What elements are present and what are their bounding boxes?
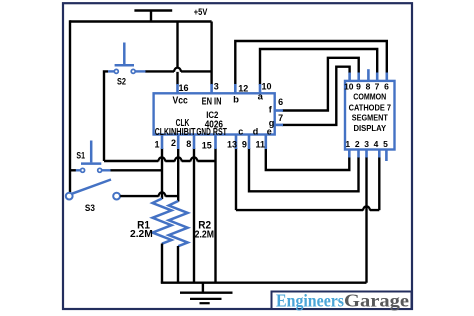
power +5V symbol xyxy=(134,11,172,22)
wire hop over pin1 vertical xyxy=(158,157,165,161)
wire: IC pin9 d to display pin2 xyxy=(249,148,359,191)
svg-text:e: e xyxy=(267,127,272,137)
svg-text:10: 10 xyxy=(262,82,272,92)
svg-text:10: 10 xyxy=(344,82,354,92)
svg-text:Engineers: Engineers xyxy=(276,290,344,310)
svg-text:9: 9 xyxy=(242,140,247,150)
wire hop over pin8 vertical xyxy=(191,157,198,161)
label S3 xyxy=(85,203,95,214)
svg-text:3: 3 xyxy=(214,82,219,92)
svg-text:6: 6 xyxy=(384,82,389,92)
wire hop over R1 line xyxy=(159,192,166,196)
label +5V xyxy=(194,7,208,18)
svg-text:CATHODE 7: CATHODE 7 xyxy=(349,103,392,113)
wire: S1 right terminal to pin1 CLK line xyxy=(111,169,163,171)
IC2 bottom pin stubs 1,2,8,15,13,9,11 xyxy=(162,135,266,150)
pushbutton S2 xyxy=(108,43,146,74)
svg-text:8: 8 xyxy=(366,82,371,92)
wire: IC pin13 c to display pin4 (hop over display pin3 line) xyxy=(236,148,379,210)
svg-text:11: 11 xyxy=(256,140,266,150)
IC2 right pin stubs 6,7 xyxy=(275,111,283,125)
label R1 xyxy=(137,219,150,231)
wire: S2 right terminal to pin3 node (hop over pin16 line) xyxy=(145,70,212,72)
display top pin stubs 10,9,8,7,6 xyxy=(350,69,387,81)
svg-text:3: 3 xyxy=(364,139,369,149)
resistor R1 xyxy=(153,199,172,244)
label R2 xyxy=(198,219,211,231)
label R2 value 2.2M xyxy=(195,230,214,241)
svg-text:a: a xyxy=(258,92,264,103)
svg-text:g: g xyxy=(269,118,275,128)
IC2 labels xyxy=(155,92,274,138)
resistor R2 xyxy=(169,201,188,246)
display pin numbers xyxy=(344,82,389,150)
svg-text:16: 16 xyxy=(179,83,189,93)
display bottom pin stubs 1,2,3,4,5 xyxy=(349,150,386,162)
border frame xyxy=(63,3,412,309)
svg-text:+5V: +5V xyxy=(194,7,208,18)
wire: display pin3 common cathode down to ground rail xyxy=(365,157,367,283)
svg-text:7: 7 xyxy=(278,113,283,123)
pushbutton S1 xyxy=(76,141,112,173)
wire: S3 right terminal to pin2 node (hop over pin1 line) xyxy=(120,195,178,197)
svg-text:2.2M: 2.2M xyxy=(130,229,153,240)
wire: pin 1 CLK down to R1 xyxy=(161,148,163,199)
wire: pin 8 GND down to ground rail xyxy=(193,148,195,283)
wire: R2 bottom to ground rail xyxy=(177,246,179,283)
wire hop over pin16 vertical xyxy=(174,68,181,72)
svg-text:6: 6 xyxy=(278,97,283,107)
IC2 top pin stubs 16,3,12,10 xyxy=(178,84,261,93)
svg-text:2: 2 xyxy=(355,139,360,149)
wire: IC pin11 e to display pin1 xyxy=(266,148,350,170)
svg-text:COMMON: COMMON xyxy=(353,92,386,102)
wire: +5V rail (y=21.5) xyxy=(70,20,212,22)
svg-text:8: 8 xyxy=(186,139,191,149)
svg-text:5: 5 xyxy=(383,139,388,149)
svg-text:DISPLAY: DISPLAY xyxy=(354,123,387,133)
svg-text:SEGMENT: SEGMENT xyxy=(352,113,389,123)
wire: left outer vertical from +5V rail to S3 xyxy=(69,20,71,192)
svg-text:9: 9 xyxy=(356,82,361,92)
wire: vertical +5V rail to IC pin 3 (EN IN) xyxy=(210,22,212,86)
wire: IC pin12 b to display pin6 xyxy=(235,41,386,85)
svg-text:2: 2 xyxy=(171,138,176,148)
svg-text:Vcc: Vcc xyxy=(173,95,189,106)
svg-text:S3: S3 xyxy=(85,203,95,214)
svg-text:S1: S1 xyxy=(76,151,85,162)
wire: IC pin7 g to display pin10 xyxy=(282,67,350,125)
svg-text:RST: RST xyxy=(213,127,227,138)
svg-text:c: c xyxy=(238,127,243,137)
svg-text:1: 1 xyxy=(155,139,160,149)
svg-text:INHIBIT: INHIBIT xyxy=(169,127,196,138)
svg-text:15: 15 xyxy=(202,140,212,150)
wire: pin 15 RST down to ground rail xyxy=(214,148,216,283)
wire hop over display pin3 vertical xyxy=(363,206,370,210)
wire: R1 bottom to ground rail xyxy=(161,244,163,283)
ground symbol xyxy=(180,283,233,304)
svg-text:4: 4 xyxy=(374,139,379,149)
op IC2 4026 box xyxy=(154,93,275,134)
switch S3 xyxy=(66,180,120,200)
wire: S2 left terminal down and right to pin 15 RST (hops over pins 1,2,8) xyxy=(104,71,216,161)
wire: S1 left terminal to left vertical xyxy=(70,169,76,171)
svg-text:13: 13 xyxy=(227,140,237,150)
wire: vertical +5V rail to IC pin 16 (Vcc) xyxy=(176,22,178,86)
label R1 value 2.2M xyxy=(130,229,153,240)
svg-text:Garage: Garage xyxy=(344,290,409,310)
IC2 pin numbers xyxy=(155,82,284,151)
svg-text:7: 7 xyxy=(375,82,380,92)
display U2 common cathode 7 segment box xyxy=(345,81,395,150)
svg-text:EN IN: EN IN xyxy=(202,97,222,108)
svg-text:b: b xyxy=(233,95,239,106)
svg-text:S2: S2 xyxy=(117,77,126,88)
wire: IC pin6 f to display pin9 xyxy=(282,58,359,111)
wire: IC pin10 a to display pin7 xyxy=(260,49,377,85)
label S1 xyxy=(76,151,85,162)
label S2 xyxy=(117,77,126,88)
EngineersGarage logo box xyxy=(272,290,412,310)
svg-text:d: d xyxy=(253,127,259,137)
svg-text:1: 1 xyxy=(345,139,350,149)
wire: ground rail xyxy=(161,282,367,284)
wire hop over pin2 vertical xyxy=(175,157,182,161)
display text xyxy=(349,92,392,133)
svg-text:12: 12 xyxy=(238,84,248,94)
wire: pin 2 INHIBIT down to R2 xyxy=(177,148,179,202)
svg-text:2.2M: 2.2M xyxy=(195,230,214,241)
svg-text:CLK: CLK xyxy=(155,127,170,138)
svg-text:GND: GND xyxy=(196,127,210,138)
